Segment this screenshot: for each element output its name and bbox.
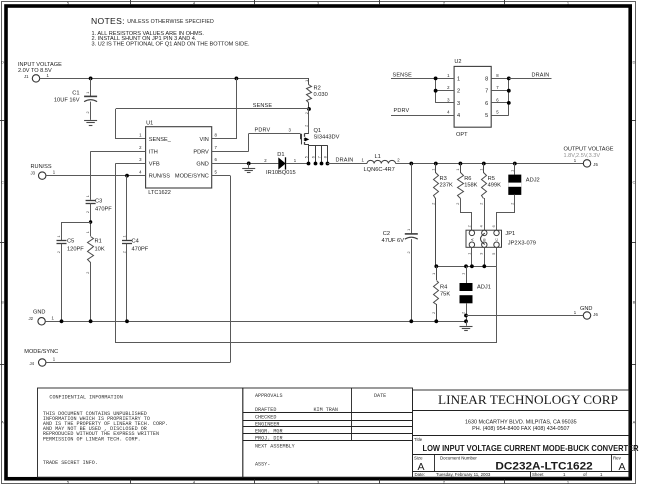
node C2 ground junction <box>409 319 413 323</box>
wire branch to C5 <box>62 222 91 224</box>
svg-text:Rev: Rev <box>613 455 622 460</box>
svg-text:2: 2 <box>510 203 514 205</box>
svg-text:1: 1 <box>407 229 411 231</box>
wire ground bus <box>45 321 466 323</box>
svg-text:5: 5 <box>485 113 488 119</box>
svg-text:C2: C2 <box>383 231 390 237</box>
svg-text:1: 1 <box>457 76 460 82</box>
svg-text:3. U2 IS THE OPTIONAL OF Q1 A: 3. U2 IS THE OPTIONAL OF Q1 AND ON THE B… <box>92 42 250 48</box>
node C5-bus junction <box>60 319 64 323</box>
node ground junction <box>247 162 251 166</box>
svg-text:J1: J1 <box>24 74 29 79</box>
svg-text:ADJ2: ADJ2 <box>526 178 540 184</box>
svg-text:1: 1 <box>86 195 90 197</box>
svg-text:5: 5 <box>492 253 496 255</box>
svg-text:LTC1622: LTC1622 <box>148 190 171 196</box>
svg-text:2: 2 <box>86 111 90 113</box>
svg-text:470PF: 470PF <box>95 206 112 212</box>
wire JP1 pin5 to node <box>496 247 498 266</box>
svg-text:A: A <box>1 420 4 425</box>
svg-text:D: D <box>632 60 635 65</box>
svg-text:D1: D1 <box>277 152 284 158</box>
wire VIN vertical to U1 pin 8 <box>236 78 238 139</box>
wire ITH to C3 <box>91 151 146 153</box>
svg-text:ASSY-: ASSY- <box>255 462 270 468</box>
node VIN-pin8 junction <box>235 77 239 81</box>
svg-text:A: A <box>619 461 626 473</box>
svg-text:120PF: 120PF <box>67 246 84 252</box>
svg-text:GND: GND <box>33 310 45 316</box>
wire R5 to JP1 pin 4 <box>484 198 486 230</box>
wire ADJ2 to JP1 pin 6 <box>497 195 515 231</box>
svg-text:J6: J6 <box>593 312 598 317</box>
svg-text:10UF 16V: 10UF 16V <box>54 98 80 104</box>
svg-text:PDRV: PDRV <box>193 149 209 155</box>
node R1-bus junction <box>89 319 93 323</box>
svg-text:UNLESS OTHERWISE SPECIFIED: UNLESS OTHERWISE SPECIFIED <box>127 19 214 25</box>
svg-text:GND: GND <box>580 306 592 312</box>
svg-text:1: 1 <box>456 169 460 171</box>
U2 right bracket pins 8-7-6-5 <box>491 78 509 80</box>
svg-text:R5: R5 <box>488 176 495 182</box>
node C4-bus junction <box>125 319 129 323</box>
svg-text:J5: J5 <box>593 162 598 167</box>
svg-text:2: 2 <box>432 312 436 314</box>
svg-text:1: 1 <box>510 170 514 172</box>
svg-text:VFB: VFB <box>149 162 160 168</box>
svg-text:1: 1 <box>86 231 90 233</box>
svg-text:Sheet: Sheet <box>532 472 544 477</box>
wire GND rail from U1 pin 6 <box>212 163 279 165</box>
svg-text:470PF: 470PF <box>132 246 149 252</box>
svg-text:5: 5 <box>304 156 308 158</box>
svg-text:GND: GND <box>196 162 208 168</box>
U2 left bracket pins 1-2-3 <box>435 78 437 103</box>
wire VIN rail <box>40 78 309 80</box>
svg-text:APPROVALS: APPROVALS <box>255 393 283 399</box>
svg-text:237K: 237K <box>440 183 453 189</box>
svg-text:Title: Title <box>414 437 423 442</box>
svg-text:DC232A-LTC1622: DC232A-LTC1622 <box>495 460 592 472</box>
svg-text:2: 2 <box>57 251 61 253</box>
svg-text:10K: 10K <box>95 246 105 252</box>
wire C4 to ground bus <box>126 244 128 322</box>
svg-text:DATE: DATE <box>374 393 386 399</box>
node Q1 drain junctions <box>307 162 311 166</box>
svg-text:2: 2 <box>305 125 309 127</box>
svg-text:PDRV: PDRV <box>394 108 410 114</box>
svg-text:C: C <box>632 180 635 185</box>
svg-text:1: 1 <box>305 80 309 82</box>
svg-text:D: D <box>1 60 4 65</box>
node R4 ground junction <box>434 319 438 323</box>
svg-text:R2: R2 <box>314 86 321 92</box>
svg-text:KIM TRAN: KIM TRAN <box>314 407 338 413</box>
wire ADJ1 to ground <box>466 303 468 321</box>
svg-text:LINEAR TECHNOLOGY CORP: LINEAR TECHNOLOGY CORP <box>438 393 618 407</box>
svg-text:Q1: Q1 <box>314 128 322 134</box>
svg-text:1.8V,2.5V,3.3V: 1.8V,2.5V,3.3V <box>564 153 601 159</box>
svg-text:RUN/SS: RUN/SS <box>31 164 52 170</box>
Q1 drain comb <box>304 144 309 146</box>
svg-text:1: 1 <box>431 169 435 171</box>
zone tick marks top <box>130 0 132 4</box>
wire C3 to R1 <box>90 204 92 237</box>
svg-text:7: 7 <box>317 156 321 158</box>
node SENSE junction at R2 <box>307 107 311 111</box>
svg-text:R6: R6 <box>464 176 471 182</box>
svg-text:2: 2 <box>467 225 471 227</box>
svg-text:PROJ. DIR: PROJ. DIR <box>255 435 283 441</box>
svg-text:C1: C1 <box>72 91 79 97</box>
svg-text:JP1: JP1 <box>505 231 515 237</box>
svg-text:ENGINEER: ENGINEER <box>255 421 279 427</box>
svg-text:LQN6C-4R7: LQN6C-4R7 <box>364 167 395 173</box>
svg-text:1: 1 <box>467 253 471 255</box>
svg-text:J3: J3 <box>31 171 36 176</box>
svg-text:1: 1 <box>86 92 90 94</box>
svg-text:OUTPUT VOLTAGE: OUTPUT VOLTAGE <box>564 147 614 153</box>
svg-text:U2: U2 <box>454 59 461 65</box>
svg-text:1: 1 <box>432 273 436 275</box>
svg-text:6: 6 <box>492 225 496 227</box>
svg-text:R1: R1 <box>95 239 102 245</box>
svg-text:OPT: OPT <box>456 132 468 138</box>
svg-text:2: 2 <box>86 272 90 274</box>
svg-text:B: B <box>1 300 4 305</box>
wire C5 to ground bus <box>61 244 63 322</box>
svg-text:3: 3 <box>457 101 460 107</box>
svg-text:J4: J4 <box>30 361 35 366</box>
svg-text:ADJ1: ADJ1 <box>477 284 491 290</box>
wire feedback node line <box>436 266 496 268</box>
svg-text:6: 6 <box>485 101 488 107</box>
svg-text:PERMISSION OF LINEAR TECH. COR: PERMISSION OF LINEAR TECH. CORP. <box>43 436 141 442</box>
svg-text:2: 2 <box>457 89 460 95</box>
svg-text:1: 1 <box>57 235 61 237</box>
svg-text:Tuesday, February 11, 2003: Tuesday, February 11, 2003 <box>436 472 491 477</box>
svg-text:ENGR. MGR: ENGR. MGR <box>255 428 283 434</box>
wire output rail <box>396 163 584 165</box>
svg-text:VIN: VIN <box>199 137 208 143</box>
svg-text:NOTES:: NOTES: <box>91 16 125 26</box>
node VIN-C1 junction <box>89 77 93 81</box>
svg-text:8: 8 <box>485 76 488 82</box>
svg-text:1: 1 <box>479 169 483 171</box>
wire RUN/SS <box>46 175 146 177</box>
title block <box>413 390 630 477</box>
svg-text:0.030: 0.030 <box>314 92 328 98</box>
svg-text:CHECKED: CHECKED <box>255 414 276 420</box>
svg-text:2: 2 <box>431 203 435 205</box>
node C5 branch junction <box>89 220 92 223</box>
svg-text:DRAIN: DRAIN <box>336 158 354 164</box>
svg-text:C: C <box>1 180 4 185</box>
svg-text:PH. (408) 954-8400 FAX (408): PH. (408) 954-8400 FAX (408) 434-0507 <box>472 426 569 432</box>
wire JP1 pin1 to node <box>471 247 473 266</box>
svg-text:2: 2 <box>407 251 411 253</box>
svg-text:IR10BQ015: IR10BQ015 <box>266 170 296 176</box>
svg-text:1: 1 <box>123 235 127 237</box>
svg-text:Document Number: Document Number <box>440 455 477 460</box>
svg-text:499K: 499K <box>488 183 501 189</box>
confidential information block <box>38 388 243 477</box>
svg-text:SI3443DV: SI3443DV <box>314 134 340 140</box>
ground at ADJ1 <box>466 321 468 326</box>
svg-text:4: 4 <box>457 113 460 119</box>
svg-text:C4: C4 <box>132 239 139 245</box>
svg-text:L1: L1 <box>375 154 381 160</box>
op-amp U1 LTC1622 body <box>146 127 212 188</box>
node ADJ1-J6 junction <box>464 314 468 318</box>
svg-text:1630 McCARTHY BLVD. MILPITAS,: 1630 McCARTHY BLVD. MILPITAS, CA 95035 <box>465 419 577 425</box>
wire JP1 pin3 to node <box>484 247 486 266</box>
wire R1 to ground bus <box>90 262 92 321</box>
svg-text:3: 3 <box>480 253 484 255</box>
svg-text:DRAIN: DRAIN <box>532 73 550 79</box>
svg-text:NEXT ASSEMBLY: NEXT ASSEMBLY <box>255 443 295 449</box>
svg-text:JP2X3-079: JP2X3-079 <box>508 241 536 247</box>
Q1 source lead up to sense node <box>304 133 309 135</box>
svg-text:C3: C3 <box>95 199 102 205</box>
svg-text:B: B <box>633 300 636 305</box>
svg-text:INPUT VOLTAGE: INPUT VOLTAGE <box>18 62 62 68</box>
approvals block <box>243 388 413 477</box>
svg-text:2: 2 <box>479 203 483 205</box>
zone tick marks bottom <box>130 480 132 484</box>
ground at U1 GND pin <box>248 163 250 167</box>
wire D1 cathode to drain node <box>286 163 309 165</box>
wire MODE/SYNC net <box>46 362 230 364</box>
JP1 shunt arc on pins 3-4 <box>481 233 485 244</box>
zone tick marks right <box>632 120 636 122</box>
ground at C1 <box>84 120 97 122</box>
svg-text:2: 2 <box>456 203 460 205</box>
svg-text:R4: R4 <box>440 284 447 290</box>
svg-text:R3: R3 <box>440 176 447 182</box>
node bus end junction <box>464 319 468 323</box>
svg-text:MODE/SYNC: MODE/SYNC <box>175 174 209 180</box>
svg-text:RUN/SS: RUN/SS <box>149 174 170 180</box>
svg-text:158K: 158K <box>464 183 477 189</box>
node RUN/SS-C4 junction <box>125 174 129 178</box>
svg-text:2: 2 <box>86 211 90 213</box>
wire VFB net <box>116 163 146 165</box>
svg-text:C5: C5 <box>67 239 74 245</box>
svg-text:75K: 75K <box>440 292 450 298</box>
svg-text:8: 8 <box>323 156 327 158</box>
svg-text:TRADE SECRET INFO.: TRADE SECRET INFO. <box>43 460 98 466</box>
svg-text:PDRV: PDRV <box>255 127 271 133</box>
svg-text:ITH: ITH <box>149 149 158 155</box>
svg-text:7: 7 <box>485 89 488 95</box>
svg-text:U1: U1 <box>146 121 153 127</box>
op-amp U2 OPT body <box>454 66 491 127</box>
svg-text:A: A <box>633 420 636 425</box>
svg-text:6: 6 <box>311 156 315 158</box>
wire to J6 <box>466 315 583 317</box>
svg-text:CONFIDENTIAL INFORMATION: CONFIDENTIAL INFORMATION <box>49 395 122 401</box>
svg-text:MODE/SYNC: MODE/SYNC <box>24 349 58 355</box>
svg-text:J2: J2 <box>29 316 34 321</box>
svg-text:47UF 6V: 47UF 6V <box>382 238 405 244</box>
svg-text:1: 1 <box>462 273 466 275</box>
svg-text:LOW INPUT VOLTAGE CURRENT MODE: LOW INPUT VOLTAGE CURRENT MODE-BUCK CONV… <box>423 444 639 453</box>
wire R6 to JP1 pin 2 <box>461 199 472 231</box>
zone tick marks left <box>0 120 4 122</box>
svg-text:2: 2 <box>462 312 466 314</box>
svg-text:DRAFTED: DRAFTED <box>255 407 276 413</box>
svg-text:SENSE: SENSE <box>393 73 413 79</box>
svg-text:SENSE_: SENSE_ <box>149 137 172 143</box>
svg-text:4: 4 <box>480 225 484 227</box>
svg-text:C: C <box>495 238 499 241</box>
svg-text:Size: Size <box>414 455 423 460</box>
svg-text:Date:: Date: <box>415 472 426 477</box>
